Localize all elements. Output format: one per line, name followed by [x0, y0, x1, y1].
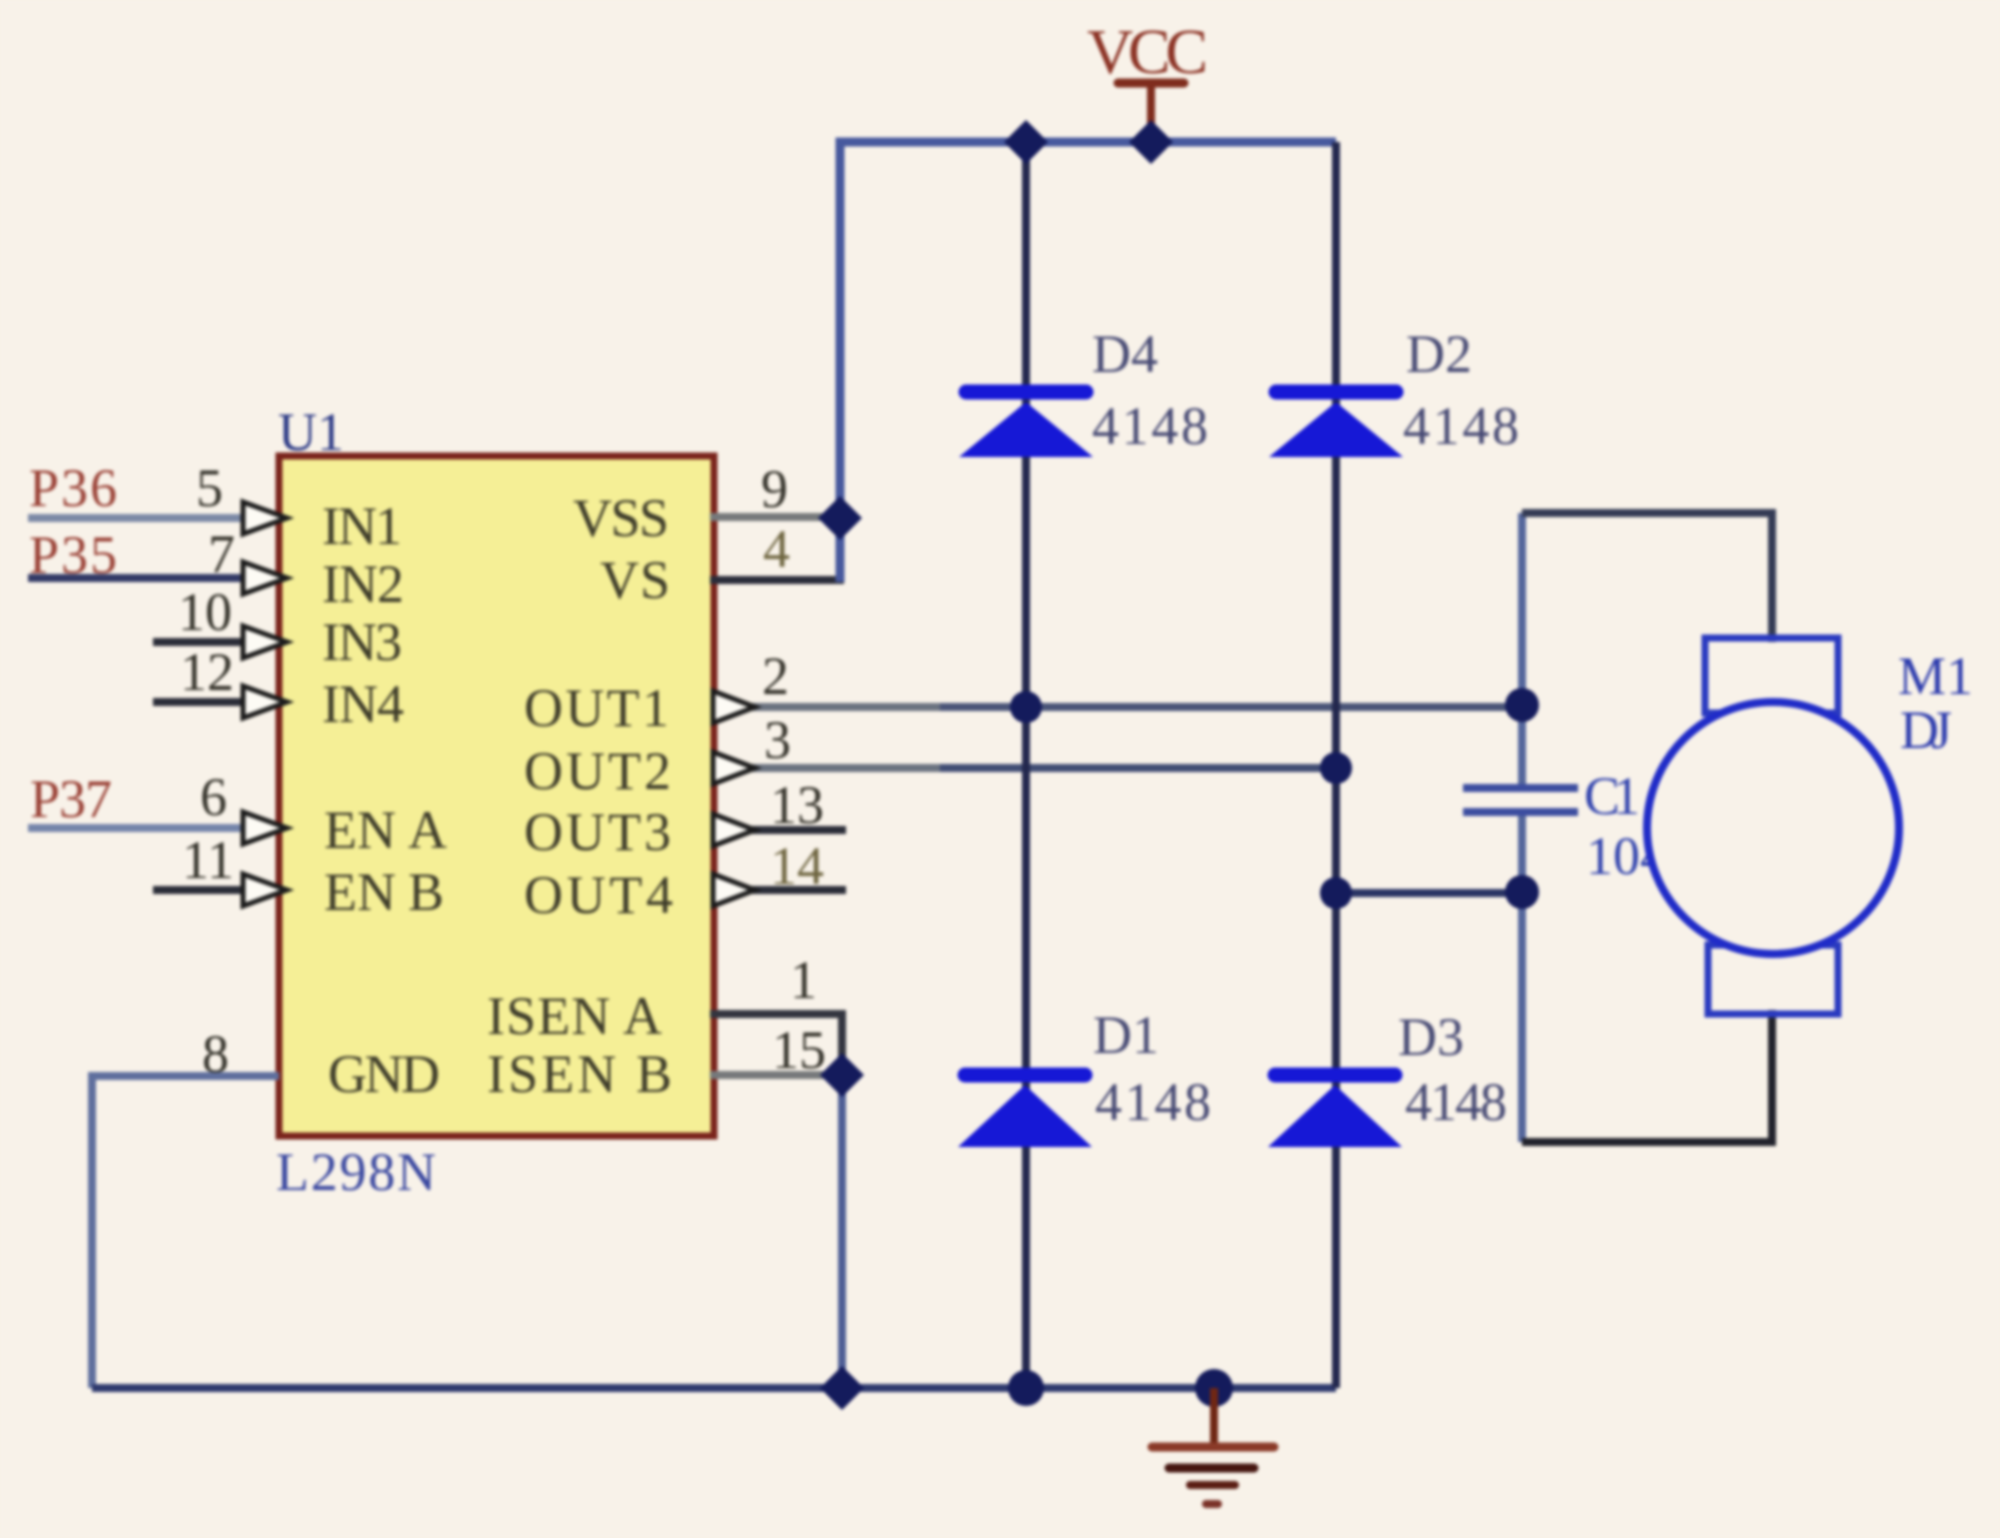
svg-text:OUT3: OUT3 — [524, 802, 671, 862]
node ground tap junction — [1195, 1369, 1233, 1407]
wire OUT4 stub — [752, 886, 846, 894]
svg-text:8: 8 — [202, 1024, 229, 1084]
node ISEN riser to ground rail junction — [820, 1366, 864, 1410]
svg-text:10: 10 — [178, 582, 232, 642]
label U1 — [278, 402, 344, 462]
svg-text:L298N: L298N — [276, 1142, 436, 1202]
pin number 14 — [770, 836, 824, 896]
wire OUT2 grey segment near pin — [752, 764, 940, 772]
wire P36 net to IN1 — [28, 514, 245, 522]
wire ISEN A to right riser — [710, 1014, 842, 1075]
wire VCC vertical riser x=840 — [840, 142, 1336, 582]
node VCC rail junction (D4 column) — [1004, 120, 1048, 164]
pin number 9 — [761, 459, 788, 519]
svg-text:EN: EN — [324, 800, 396, 860]
svg-text:DJ: DJ — [1900, 700, 1952, 760]
svg-text:6: 6 — [200, 767, 227, 827]
wire ground bottom rail — [92, 1384, 1336, 1392]
pin name OUT1 — [524, 678, 669, 738]
pin arrow OUT2 (pin 3) — [713, 752, 755, 784]
value 4148 (D3) — [1405, 1072, 1507, 1132]
pin number 12 — [180, 642, 234, 702]
motor M1 terminal block bottom — [1708, 945, 1838, 1014]
wire motor top lead — [1522, 513, 1772, 642]
pin name IN1 — [322, 496, 402, 556]
pin name OUT2 — [524, 741, 671, 801]
node snubber link right junction — [1505, 875, 1539, 909]
pin arrow IN2 (pin 7) — [243, 562, 287, 594]
svg-text:D3: D3 — [1398, 1007, 1464, 1067]
svg-text:C1: C1 — [1584, 766, 1640, 826]
svg-text:P37: P37 — [30, 769, 112, 829]
wire OUT1 net — [752, 703, 1522, 711]
svg-text:D1: D1 — [1093, 1005, 1159, 1065]
wire OUT1 grey segment near pin — [752, 703, 940, 711]
wire EN B stub — [153, 886, 245, 894]
svg-text:1: 1 — [790, 950, 817, 1010]
svg-text:11: 11 — [182, 830, 234, 890]
diode D1 — [958, 1075, 1092, 1147]
svg-text:OUT4: OUT4 — [524, 865, 673, 925]
node VCC rail junction (VCC stub) — [1129, 120, 1173, 164]
node OUT1 / D4-D1 column junction — [1010, 691, 1042, 723]
wire OUT3 stub — [752, 826, 846, 834]
svg-text:13: 13 — [770, 775, 824, 835]
wire snubber link OUT2 column to cap bottom — [1336, 889, 1522, 897]
node OUT2 / D2-D3 column junction — [1320, 752, 1352, 784]
pin arrow OUT1 (pin 2) — [713, 691, 755, 723]
wire D2-D3 column — [1332, 142, 1340, 1388]
pin name OUT4 — [524, 865, 673, 925]
wire VS pin to VCC vertical — [710, 576, 844, 584]
svg-text:VSS: VSS — [573, 488, 669, 548]
wire P37 net to EN A — [28, 824, 245, 832]
svg-text:12: 12 — [180, 642, 234, 702]
pin name IN3 — [322, 612, 402, 672]
diode D4 — [959, 392, 1093, 457]
svg-text:OUT2: OUT2 — [524, 741, 671, 801]
pin name ISEN A — [487, 986, 662, 1046]
diode D2 — [1269, 392, 1403, 457]
svg-text:OUT1: OUT1 — [524, 678, 669, 738]
svg-text:IN3: IN3 — [322, 612, 402, 672]
wire OUT2 net — [752, 764, 1336, 772]
svg-text:B: B — [408, 862, 444, 922]
svg-text:3: 3 — [764, 710, 791, 770]
pin name IN2 — [322, 554, 404, 614]
svg-text:5: 5 — [196, 458, 223, 518]
IC U1 body (L298N) — [279, 456, 714, 1136]
wire GND pin to ground rail (left loop) — [92, 1076, 279, 1388]
value 10 (C1, partly hidden by motor) — [1586, 826, 1667, 886]
pin arrow IN3 (pin 10) — [243, 626, 287, 658]
label D2 — [1406, 324, 1472, 384]
pin name VSS — [573, 488, 669, 548]
svg-text:IN4: IN4 — [322, 674, 404, 734]
motor M1 body circle — [1647, 702, 1899, 954]
power symbol VCC — [1118, 83, 1184, 146]
pin number 6 — [200, 767, 227, 827]
pin arrow OUT3 (pin 13) — [713, 814, 755, 846]
pin name VS — [600, 550, 670, 610]
wire IN4 stub — [153, 698, 245, 706]
pin number 1 — [790, 950, 817, 1010]
node D1 to ground rail junction — [1008, 1370, 1044, 1406]
svg-text:EN: EN — [324, 862, 396, 922]
pin number 15 — [772, 1020, 826, 1080]
net label P37 — [30, 769, 112, 829]
wire motor bottom lead — [1522, 1010, 1772, 1142]
svg-text:ISEN B: ISEN B — [487, 1044, 672, 1104]
label D1 — [1093, 1005, 1159, 1065]
svg-text:P35: P35 — [29, 525, 117, 585]
pin number 5 — [196, 458, 223, 518]
wire ISEN riser down to ground rail — [838, 1075, 846, 1388]
wire cap column lower (cap bottom plate to motor return) — [1518, 811, 1526, 1142]
wire VSS pin to VCC rail — [710, 513, 840, 521]
motor M1 terminal block top — [1705, 638, 1838, 713]
node snubber link left junction — [1320, 877, 1352, 909]
wire P35 net to IN2 — [28, 574, 245, 582]
pin number 11 — [182, 830, 234, 890]
pin name OUT3 — [524, 802, 671, 862]
pin name GND — [328, 1044, 440, 1104]
svg-text:M1: M1 — [1898, 646, 1973, 706]
svg-text:D4: D4 — [1092, 324, 1158, 384]
node VSS junction — [818, 496, 862, 540]
svg-text:A: A — [408, 800, 447, 860]
pin name ISEN B — [487, 1044, 672, 1104]
svg-text:9: 9 — [761, 459, 788, 519]
wire D4-D1 column — [1022, 142, 1030, 1388]
svg-text:IN1: IN1 — [322, 496, 402, 556]
value 4148 (D2) — [1403, 396, 1519, 456]
svg-text:7: 7 — [208, 524, 235, 584]
svg-text:14: 14 — [770, 836, 824, 896]
pin number 8 — [202, 1024, 229, 1084]
svg-text:U1: U1 — [278, 402, 344, 462]
svg-text:IN2: IN2 — [322, 554, 404, 614]
svg-text:4: 4 — [763, 519, 790, 579]
label M1 — [1898, 646, 1973, 706]
svg-text:2: 2 — [762, 646, 789, 706]
pin name EN A — [324, 800, 447, 860]
net label VCC — [1087, 16, 1208, 87]
net label P36 — [29, 458, 117, 518]
value 4148 (D4) — [1092, 396, 1208, 456]
pin number 4 — [763, 519, 790, 579]
wire cap column upper (OUT1 node to cap top plate) — [1518, 513, 1526, 787]
svg-text:D2: D2 — [1406, 324, 1472, 384]
value 4148 (D1) — [1095, 1072, 1211, 1132]
svg-text:P36: P36 — [29, 458, 117, 518]
label L298N — [276, 1142, 436, 1202]
wire IN3 stub — [153, 638, 245, 646]
svg-text:4148: 4148 — [1405, 1072, 1507, 1132]
label C1 — [1584, 766, 1640, 826]
diode D3 — [1268, 1075, 1402, 1147]
label D4 — [1092, 324, 1158, 384]
pin number 10 — [178, 582, 232, 642]
label DJ — [1900, 700, 1952, 760]
pin number 3 — [764, 710, 791, 770]
node ISEN A/B junction — [820, 1053, 864, 1097]
pin name IN4 — [322, 674, 404, 734]
pin arrow OUT4 (pin 14) — [713, 874, 755, 906]
pin name EN B — [324, 862, 444, 922]
svg-text:GND: GND — [328, 1044, 440, 1104]
wire ISEN B to riser — [710, 1071, 842, 1079]
pin arrow IN1 (pin 5) — [243, 502, 287, 534]
label D3 — [1398, 1007, 1464, 1067]
pin arrow EN A (pin 6) — [243, 812, 287, 844]
svg-text:15: 15 — [772, 1020, 826, 1080]
capacitor C1 — [1463, 784, 1578, 816]
svg-text:ISEN A: ISEN A — [487, 986, 662, 1046]
net label P35 — [29, 525, 117, 585]
node OUT1 / motor+cap junction — [1505, 688, 1539, 722]
pin number 13 — [770, 775, 824, 835]
pin number 7 — [208, 524, 235, 584]
pin arrow IN4 (pin 12) — [243, 686, 287, 718]
pin number 2 — [762, 646, 789, 706]
ground symbol — [1152, 1388, 1274, 1504]
svg-text:VS: VS — [600, 550, 670, 610]
pin arrow EN B (pin 11) — [243, 874, 287, 906]
svg-text:VCC: VCC — [1087, 16, 1208, 87]
